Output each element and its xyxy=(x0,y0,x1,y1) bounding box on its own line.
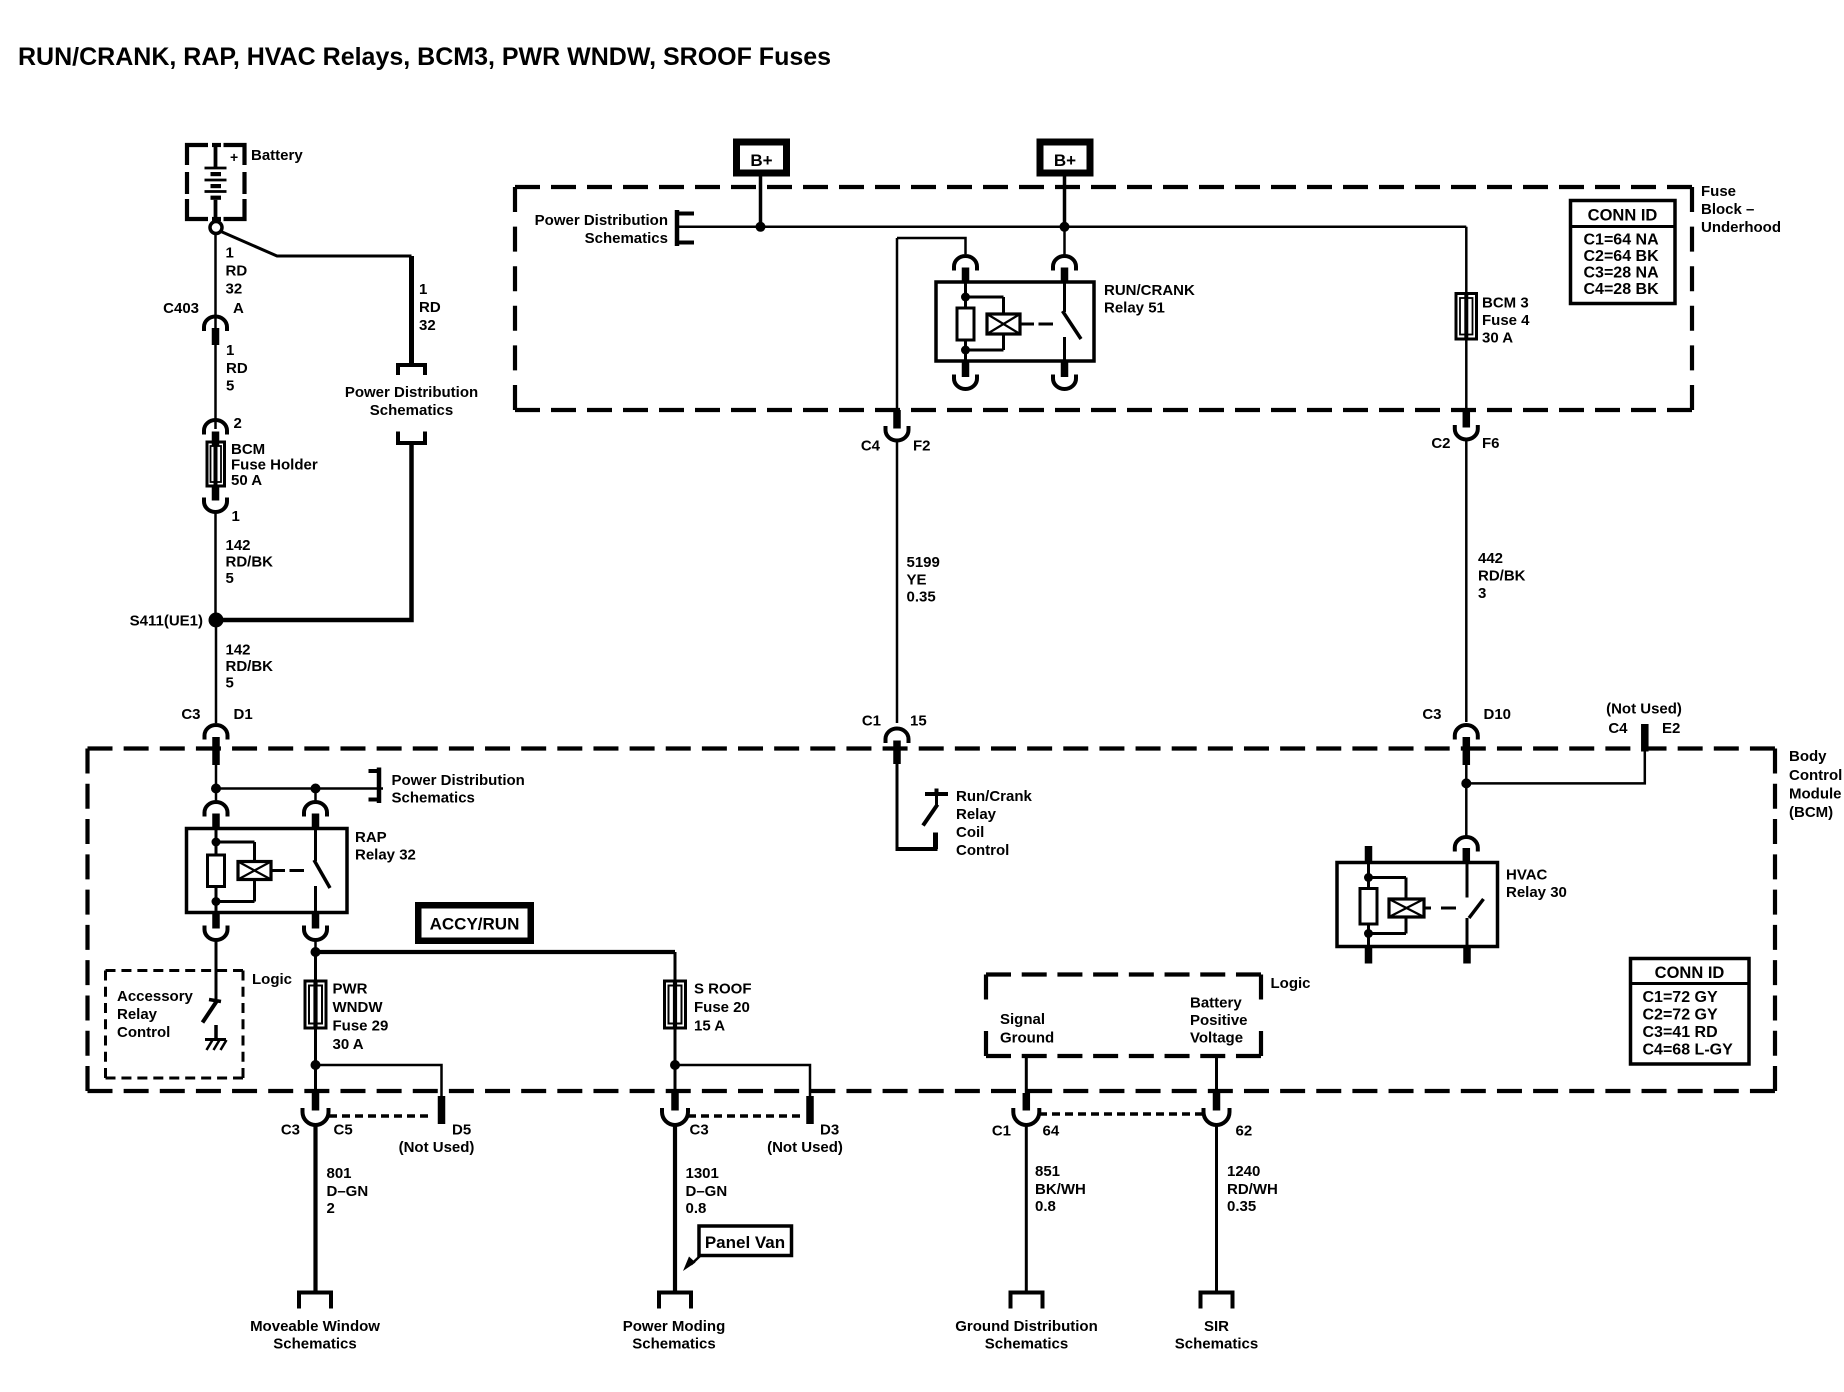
relay32 coil-switch link xyxy=(271,869,304,872)
label wire 442 RD/BK 3 xyxy=(1478,550,1526,602)
relay30 coil-switch link xyxy=(1424,907,1456,910)
box Fuse Block - Underhood xyxy=(515,187,1692,410)
svg-text:C2=72 GY: C2=72 GY xyxy=(1643,1007,1718,1024)
label wire 142 RD/BK 5 (lower) xyxy=(226,642,274,692)
label Battery Positive Voltage xyxy=(1190,995,1248,1047)
wire 851 BK/WH xyxy=(1025,1125,1028,1291)
label Battery xyxy=(251,147,303,164)
label pin 2 xyxy=(234,415,242,432)
wire to power distribution (top) xyxy=(409,256,414,364)
label Power Distribution Schematics (BCM) xyxy=(392,772,525,807)
wire fuse20 down xyxy=(670,1028,680,1096)
label C4 / F2 xyxy=(861,438,931,455)
wire connector line left xyxy=(329,1114,433,1118)
fuse F20 S ROOF xyxy=(665,981,686,1028)
wire coil control drop xyxy=(896,238,899,411)
svg-text:15 A: 15 A xyxy=(694,1018,725,1035)
label C3 / D10 xyxy=(1422,706,1511,723)
wire B+ bus xyxy=(679,226,1466,229)
svg-text:Fuse 20: Fuse 20 xyxy=(694,999,750,1016)
svg-text:+: + xyxy=(230,149,238,165)
svg-text:C5: C5 xyxy=(334,1122,353,1139)
label S411(UE1) xyxy=(130,613,203,630)
wire C403 to fuse holder xyxy=(214,345,217,429)
connector D3 pin xyxy=(806,1096,814,1124)
svg-text:Relay: Relay xyxy=(117,1006,158,1023)
svg-text:RD: RD xyxy=(226,263,248,280)
node S411(UE1) xyxy=(209,613,224,628)
svg-text:BCM: BCM xyxy=(231,441,265,458)
label wire 1301 D-GN 0.8 xyxy=(686,1165,728,1217)
svg-text:WNDW: WNDW xyxy=(333,999,384,1016)
label Moveable Window Schematics xyxy=(250,1318,380,1353)
svg-text:C2: C2 xyxy=(1431,435,1450,452)
terminal ACCY/RUN xyxy=(415,902,534,944)
svg-text:Control: Control xyxy=(1789,767,1842,784)
battery B1 (dashed box) xyxy=(187,145,245,219)
svg-text:Logic: Logic xyxy=(1271,975,1311,992)
svg-text:C3: C3 xyxy=(1422,706,1441,723)
wire D5 branch xyxy=(316,1065,442,1098)
wire power distribution to S411 xyxy=(222,443,412,620)
connector relay32 coil top xyxy=(205,792,228,829)
connector relay51 coil bottom xyxy=(954,361,977,389)
svg-text:1: 1 xyxy=(226,342,234,359)
relay30 switch bottom pin xyxy=(1463,947,1471,964)
relay51 switch xyxy=(1063,283,1082,361)
svg-text:1: 1 xyxy=(419,281,427,298)
svg-text:Relay 30: Relay 30 xyxy=(1506,884,1567,901)
svg-text:Power Distribution: Power Distribution xyxy=(535,212,668,229)
svg-text:30 A: 30 A xyxy=(333,1036,364,1053)
connector C3 C5 xyxy=(303,1093,329,1125)
svg-text:Control: Control xyxy=(117,1024,170,1041)
svg-text:D–GN: D–GN xyxy=(686,1183,728,1200)
table CONN ID (fuse block) xyxy=(1571,201,1676,304)
callout Panel Van xyxy=(699,1226,792,1256)
wire signal ground drop xyxy=(1025,1056,1028,1094)
svg-text:0.35: 0.35 xyxy=(1227,1198,1256,1215)
terminal moveable window xyxy=(297,1291,333,1309)
svg-text:C1: C1 xyxy=(862,713,881,730)
svg-text:Signal: Signal xyxy=(1000,1011,1045,1028)
label wire 1240 RD/WH 0.35 xyxy=(1227,1163,1278,1215)
svg-text:SIR: SIR xyxy=(1204,1318,1229,1335)
label PWR WNDW Fuse 29 30 A xyxy=(333,981,389,1054)
fuse F1 BCM Fuse Holder xyxy=(207,442,225,486)
box Body Control Module (BCM) xyxy=(88,749,1776,1092)
label wire 1 RD 5 xyxy=(226,342,248,395)
relay U51 RUN/CRANK Relay 51 body xyxy=(936,282,1094,361)
svg-text:Ground: Ground xyxy=(1000,1030,1054,1047)
wire fuse29 down xyxy=(311,1028,321,1096)
svg-text:CONN ID: CONN ID xyxy=(1655,964,1725,982)
svg-text:1: 1 xyxy=(232,508,240,525)
relay U32 RAP Relay 32 body xyxy=(187,829,348,913)
svg-text:142: 142 xyxy=(226,642,251,659)
label Run/Crank Relay Coil Control xyxy=(956,788,1033,859)
relay32 coil symbol xyxy=(238,862,271,880)
box Logic xyxy=(986,975,1261,1057)
svg-text:RD/BK: RD/BK xyxy=(1478,568,1526,585)
svg-text:Battery: Battery xyxy=(1190,995,1242,1012)
svg-text:S411(UE1): S411(UE1) xyxy=(130,613,203,630)
wire E2 branch xyxy=(1466,752,1645,784)
label Fuse Block - Underhood xyxy=(1701,183,1781,236)
connector D5 pin xyxy=(438,1096,446,1124)
svg-text:Schematics: Schematics xyxy=(632,1336,715,1353)
label C1 / 64 xyxy=(992,1123,1060,1140)
svg-text:5199: 5199 xyxy=(907,554,940,571)
connector relay32 switch bottom xyxy=(304,913,327,941)
svg-text:Fuse 29: Fuse 29 xyxy=(333,1018,389,1035)
svg-text:RUN/CRANK, RAP, HVAC Relays, B: RUN/CRANK, RAP, HVAC Relays, BCM3, PWR W… xyxy=(18,43,831,71)
label (Not Used) C4 E2 xyxy=(1606,701,1682,738)
svg-text:Block –: Block – xyxy=(1701,201,1754,218)
arrow panel van xyxy=(683,1256,700,1271)
label wire 1 RD 32 (right) xyxy=(419,281,441,334)
off-page connector power distribution (fuse block) xyxy=(677,210,694,246)
wire D1 into BCM xyxy=(215,762,218,792)
wire S411 to C3 D1 xyxy=(215,627,218,724)
label Body Control Module (BCM) xyxy=(1789,748,1842,821)
wire battery to C403 xyxy=(214,234,217,329)
fuse F29 PWR WNDW xyxy=(305,981,326,1028)
svg-text:Power Distribution: Power Distribution xyxy=(345,384,478,401)
svg-text:D3: D3 xyxy=(820,1122,839,1139)
label D5 (Not Used) xyxy=(399,1122,475,1157)
wire fuse4 to F6 xyxy=(1465,339,1468,411)
svg-text:C1=64 NA: C1=64 NA xyxy=(1584,232,1660,249)
svg-text:Fuse: Fuse xyxy=(1701,183,1736,200)
label S ROOF Fuse 20 15 A xyxy=(694,981,752,1035)
svg-text:Power Distribution: Power Distribution xyxy=(392,772,525,789)
svg-text:5: 5 xyxy=(226,570,234,587)
connector C3 D10 xyxy=(1455,725,1478,765)
connector relay30 switch top xyxy=(1455,837,1478,862)
label wire 851 BK/WH 0.8 xyxy=(1035,1163,1086,1215)
svg-text:RD/WH: RD/WH xyxy=(1227,1181,1278,1198)
connector C1 15 xyxy=(886,729,909,765)
svg-text:Schematics: Schematics xyxy=(273,1336,356,1353)
svg-text:BCM 3: BCM 3 xyxy=(1482,295,1529,312)
svg-text:D1: D1 xyxy=(234,706,253,723)
switch run/crank relay coil control xyxy=(923,789,948,826)
wire B+ left drop xyxy=(759,177,763,227)
terminal ground distribution xyxy=(1009,1291,1045,1309)
svg-text:15: 15 xyxy=(910,713,927,730)
svg-text:2: 2 xyxy=(327,1200,335,1217)
label SIR Schematics xyxy=(1175,1318,1258,1353)
relay30 coil branch xyxy=(1360,863,1406,947)
svg-text:Coil: Coil xyxy=(956,824,984,841)
relay32 switch xyxy=(314,829,330,913)
box Accessory Relay Control xyxy=(106,971,244,1079)
node bus junction left xyxy=(756,222,766,232)
fuse holder connector top xyxy=(204,420,227,446)
svg-text:C2=64 BK: C2=64 BK xyxy=(1584,248,1660,265)
svg-text:Schematics: Schematics xyxy=(585,230,668,247)
svg-text:Schematics: Schematics xyxy=(392,790,475,807)
svg-text:1240: 1240 xyxy=(1227,1163,1260,1180)
svg-text:ACCY/RUN: ACCY/RUN xyxy=(430,915,520,934)
ground accessory relay control xyxy=(205,1025,227,1050)
connector relay32 coil bottom xyxy=(205,913,228,941)
label Power Distribution Schematics (fuse block) xyxy=(535,212,668,247)
svg-text:Panel Van: Panel Van xyxy=(705,1233,785,1252)
relay51 coil symbol xyxy=(987,314,1020,334)
relay30 coil bottom pin xyxy=(1365,947,1373,964)
battery B1 cells xyxy=(205,145,239,221)
svg-text:YE: YE xyxy=(907,572,927,589)
fuse F4 BCM 3 xyxy=(1456,294,1477,340)
connector 62 xyxy=(1204,1093,1230,1125)
svg-text:Accessory: Accessory xyxy=(117,988,194,1005)
title xyxy=(18,43,831,71)
svg-text:442: 442 xyxy=(1478,550,1503,567)
svg-text:2: 2 xyxy=(234,415,242,432)
connector C2 F6 xyxy=(1455,410,1478,439)
label wire 142 RD/BK 5 (upper) xyxy=(226,537,274,587)
svg-text:RD: RD xyxy=(226,360,248,377)
wire bus to fuse4 xyxy=(1465,227,1468,294)
off-page connector power distribution (BCM) xyxy=(369,768,380,804)
wire coil feed xyxy=(897,238,966,254)
svg-text:Ground Distribution: Ground Distribution xyxy=(955,1318,1097,1335)
svg-text:C1: C1 xyxy=(992,1123,1011,1140)
svg-text:0.8: 0.8 xyxy=(1035,1198,1056,1215)
svg-text:Body: Body xyxy=(1789,748,1827,765)
wire battery diagonal feed xyxy=(221,232,412,257)
label Ground Distribution Schematics xyxy=(955,1318,1097,1353)
svg-text:A: A xyxy=(233,300,244,317)
svg-text:D–GN: D–GN xyxy=(327,1183,369,1200)
wire to coil control logic xyxy=(897,762,938,851)
label wire 1 RD 32 (left) xyxy=(226,245,248,298)
relay30 coil symbol xyxy=(1389,899,1424,917)
label C3 / C5 xyxy=(281,1122,353,1139)
connector C4 F2 xyxy=(886,410,909,441)
svg-text:PWR: PWR xyxy=(333,981,368,998)
svg-text:RUN/CRANK: RUN/CRANK xyxy=(1104,282,1195,299)
svg-text:Control: Control xyxy=(956,842,1009,859)
svg-text:C4=28 BK: C4=28 BK xyxy=(1584,281,1660,298)
svg-text:Relay: Relay xyxy=(956,806,997,823)
label C1 / 15 xyxy=(862,713,927,730)
svg-text:D10: D10 xyxy=(1484,706,1512,723)
label C403 / A xyxy=(163,300,244,317)
connector relay51 switch bottom xyxy=(1053,361,1076,389)
svg-text:Schematics: Schematics xyxy=(985,1336,1068,1353)
svg-text:CONN ID: CONN ID xyxy=(1588,207,1658,225)
svg-text:30 A: 30 A xyxy=(1482,330,1513,347)
svg-text:F6: F6 xyxy=(1482,435,1500,452)
label RAP Relay 32 xyxy=(355,829,416,864)
relay U30 HVAC Relay 30 body xyxy=(1337,863,1498,947)
label Signal Ground xyxy=(1000,1011,1054,1047)
label Accessory Relay Control xyxy=(117,988,194,1041)
svg-text:Fuse Holder: Fuse Holder xyxy=(231,457,318,474)
svg-text:C4: C4 xyxy=(861,438,881,455)
label wire 801 D-GN 2 xyxy=(327,1165,369,1217)
svg-text:RD: RD xyxy=(419,299,441,316)
svg-text:C4=68 L-GY: C4=68 L-GY xyxy=(1643,1042,1734,1059)
label pin 1 xyxy=(232,508,240,525)
svg-text:C3: C3 xyxy=(690,1122,709,1139)
svg-text:BK/WH: BK/WH xyxy=(1035,1181,1086,1198)
connector C4 E2 pin xyxy=(1641,724,1649,752)
wire D10 to HVAC xyxy=(1461,762,1471,838)
wire 1301 D-GN xyxy=(673,1125,677,1291)
svg-text:Relay 32: Relay 32 xyxy=(355,847,416,864)
relay51 coil-switch link xyxy=(1020,323,1053,326)
svg-text:Voltage: Voltage xyxy=(1190,1030,1243,1047)
relay30 coil top pin xyxy=(1365,846,1373,863)
svg-text:32: 32 xyxy=(419,317,436,334)
svg-text:B+: B+ xyxy=(750,151,772,170)
label C2 / F6 xyxy=(1431,435,1499,452)
label D3 (Not Used) xyxy=(767,1122,843,1157)
svg-text:142: 142 xyxy=(226,537,251,554)
label BCM Fuse Holder 50 A xyxy=(231,441,318,489)
wire 801 D-GN xyxy=(313,1125,317,1291)
svg-text:Relay 51: Relay 51 xyxy=(1104,300,1165,317)
svg-text:0.35: 0.35 xyxy=(907,589,936,606)
terminal B+ (right) xyxy=(1037,139,1094,177)
switch accessory relay control xyxy=(203,1000,222,1023)
label Power Distribution Schematics (battery) xyxy=(345,384,478,419)
svg-text:(BCM): (BCM) xyxy=(1789,804,1833,821)
svg-text:1: 1 xyxy=(226,245,234,262)
svg-text:Fuse 4: Fuse 4 xyxy=(1482,312,1530,329)
svg-text:HVAC: HVAC xyxy=(1506,867,1548,884)
label Logic (right) xyxy=(1271,975,1311,992)
svg-text:1301: 1301 xyxy=(686,1165,719,1182)
svg-text:Schematics: Schematics xyxy=(370,402,453,419)
svg-text:Positive: Positive xyxy=(1190,1012,1248,1029)
off-page connector power distribution bottom bracket xyxy=(396,432,427,444)
connector C1 64 xyxy=(1013,1093,1039,1125)
relay51 coil branch xyxy=(957,283,1004,361)
svg-text:851: 851 xyxy=(1035,1163,1060,1180)
svg-text:C403: C403 xyxy=(163,300,199,317)
svg-text:Logic: Logic xyxy=(252,971,292,988)
label 62 xyxy=(1236,1123,1253,1140)
node bus junction right xyxy=(1060,222,1070,232)
svg-text:Schematics: Schematics xyxy=(1175,1336,1258,1353)
svg-text:Battery: Battery xyxy=(251,147,303,164)
svg-text:B+: B+ xyxy=(1054,151,1076,170)
svg-text:Underhood: Underhood xyxy=(1701,219,1781,236)
label HVAC Relay 30 xyxy=(1506,867,1567,902)
label C3 / D1 xyxy=(181,706,252,723)
svg-text:S ROOF: S ROOF xyxy=(694,981,752,998)
connector C403 xyxy=(204,317,227,346)
wire 442 RD/BK xyxy=(1465,439,1468,722)
wire ACCY/RUN bus xyxy=(316,950,676,954)
svg-text:Power Moding: Power Moding xyxy=(623,1318,726,1335)
wire junction to fuse29 xyxy=(314,952,317,982)
connector C3 (sroof) xyxy=(662,1093,688,1125)
svg-text:F2: F2 xyxy=(913,438,931,455)
svg-text:RD/BK: RD/BK xyxy=(226,658,274,675)
label wire 5199 YE 0.35 xyxy=(907,554,940,606)
svg-text:(Not Used): (Not Used) xyxy=(767,1139,843,1156)
node battery terminal xyxy=(210,222,222,234)
svg-text:C3: C3 xyxy=(181,706,200,723)
svg-text:50 A: 50 A xyxy=(231,472,262,489)
svg-text:C4: C4 xyxy=(1608,720,1628,737)
connector relay51 coil top xyxy=(954,256,977,283)
svg-text:Moveable Window: Moveable Window xyxy=(250,1318,380,1335)
connector relay51 switch top xyxy=(1053,227,1076,283)
svg-text:(Not Used): (Not Used) xyxy=(399,1139,475,1156)
wire switch out to junction xyxy=(311,942,321,958)
svg-text:62: 62 xyxy=(1236,1123,1253,1140)
wire power distribution tap xyxy=(211,784,383,794)
svg-text:RD/BK: RD/BK xyxy=(226,554,274,571)
terminal power moding xyxy=(657,1291,693,1309)
wire 1240 RD/WH xyxy=(1215,1125,1218,1291)
off-page connector power distribution top bracket xyxy=(396,363,427,375)
svg-text:C3: C3 xyxy=(281,1122,300,1139)
connector C3 D1 xyxy=(205,725,228,765)
table CONN ID (BCM) xyxy=(1631,959,1750,1065)
svg-text:3: 3 xyxy=(1478,585,1486,602)
wire connector line middle xyxy=(1039,1112,1205,1116)
label C3 (sroof) xyxy=(690,1122,709,1139)
wire 5199 YE xyxy=(896,440,899,723)
terminal SIR xyxy=(1199,1291,1235,1309)
svg-text:0.8: 0.8 xyxy=(686,1200,707,1217)
label RUN/CRANK Relay 51 xyxy=(1104,282,1195,317)
wire coil to accessory switch xyxy=(215,942,218,1000)
svg-text:801: 801 xyxy=(327,1165,352,1182)
fuse holder connector bottom xyxy=(204,486,227,512)
wire connector line right xyxy=(688,1114,802,1118)
relay32 coil branch xyxy=(208,829,255,913)
svg-text:Run/Crank: Run/Crank xyxy=(956,788,1033,805)
svg-text:32: 32 xyxy=(226,281,243,298)
relay30 switch xyxy=(1467,863,1484,947)
wire battery positive drop xyxy=(1215,1056,1218,1094)
label BCM 3 Fuse 4 30 A xyxy=(1482,295,1530,347)
svg-text:RAP: RAP xyxy=(355,829,387,846)
svg-text:E2: E2 xyxy=(1662,720,1680,737)
svg-text:5: 5 xyxy=(226,675,234,692)
wire D3 branch xyxy=(675,1065,810,1098)
label Power Moding Schematics xyxy=(623,1318,726,1353)
svg-text:Module: Module xyxy=(1789,786,1842,803)
svg-text:64: 64 xyxy=(1043,1123,1060,1140)
terminal B+ (left) xyxy=(733,139,790,177)
svg-text:C3=28 NA: C3=28 NA xyxy=(1584,265,1660,282)
label Logic (left) xyxy=(252,971,292,988)
svg-text:C1=72 GY: C1=72 GY xyxy=(1643,989,1718,1006)
svg-text:5: 5 xyxy=(226,378,234,395)
wire fuse holder to S411 xyxy=(214,511,217,614)
wire bus to fuse20 xyxy=(674,952,677,982)
svg-text:(Not Used): (Not Used) xyxy=(1606,701,1682,718)
connector relay32 switch top xyxy=(304,789,327,830)
wire B+ right drop xyxy=(1063,177,1067,227)
svg-text:D5: D5 xyxy=(452,1122,471,1139)
svg-text:C3=41 RD: C3=41 RD xyxy=(1643,1024,1718,1041)
